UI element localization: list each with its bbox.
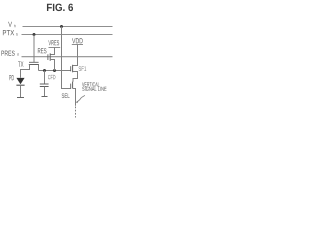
transistor TX channel bar bbox=[29, 64, 39, 66]
transistor RES gate bar bbox=[47, 54, 49, 60]
transistor RES channel bar bbox=[49, 53, 51, 61]
wire TX drain to FD node bbox=[38, 65, 40, 71]
wire RES source to FD bbox=[50, 60, 55, 71]
node dot on PTX_n bus (TX gate tap) bbox=[33, 33, 36, 36]
wire V_n bus to SEL gate bbox=[62, 27, 71, 89]
label PRES_n bbox=[1, 51, 19, 56]
wire CFD to ground bbox=[44, 87, 46, 97]
label VERTICAL bbox=[82, 82, 99, 86]
label SF1 bbox=[79, 66, 87, 71]
photodiode PD anode triangle bbox=[16, 78, 24, 84]
wire FD to CFD top plate bbox=[44, 71, 46, 85]
wire TX source to PD bbox=[21, 65, 30, 78]
photodiode PD cathode bar bbox=[16, 84, 24, 86]
ground tick under PD bbox=[17, 97, 24, 99]
label SEL bbox=[62, 93, 70, 98]
net PRES_n bus bbox=[22, 56, 113, 58]
wire PD to ground bbox=[20, 85, 22, 97]
label TX bbox=[18, 61, 23, 66]
transistor SF channel bar bbox=[72, 65, 74, 73]
label PD bbox=[9, 75, 14, 80]
leader from label to vertical signal line bbox=[77, 95, 85, 102]
label PTX_n bbox=[3, 30, 18, 36]
wire SEL source to vertical signal line bbox=[73, 89, 76, 106]
node dot on V_n bus (SEL gate tap) bbox=[60, 25, 63, 28]
leader arrowhead bbox=[76, 101, 78, 103]
node dot FD to CFD bbox=[43, 69, 46, 72]
wire vertical signal line dashed continuation bbox=[75, 107, 77, 118]
label VDD bbox=[72, 38, 83, 43]
wire SF source jog to SEL drain bbox=[73, 72, 78, 82]
transistor SEL channel bar bbox=[72, 82, 74, 89]
label title FIG. 6 bbox=[47, 4, 73, 12]
terminal VRES underline bbox=[49, 47, 61, 49]
label SIGNAL LINE bbox=[82, 87, 106, 91]
transistor TX gate bar bbox=[29, 61, 39, 63]
capacitor CFD bottom plate bbox=[40, 86, 49, 88]
transistor SF gate bar bbox=[70, 66, 72, 71]
terminal VDD underline bbox=[72, 44, 83, 46]
label V_n bbox=[8, 22, 15, 27]
transistor SEL gate bar bbox=[70, 84, 72, 89]
label CFD bbox=[48, 75, 55, 79]
wire FD node line bbox=[39, 70, 71, 72]
net V_n bus bbox=[23, 26, 113, 28]
label VRES bbox=[48, 40, 59, 45]
wire VDD to SF drain bbox=[73, 45, 78, 66]
capacitor CFD top plate bbox=[40, 83, 49, 85]
node dot FD to RES source bbox=[53, 69, 56, 72]
label RES bbox=[38, 48, 47, 53]
wire TX gate from PTX_n bus bbox=[33, 35, 35, 63]
wire VRES to RES drain bbox=[50, 48, 55, 55]
ground tick under CFD bbox=[42, 96, 48, 98]
net PTX_n bus bbox=[22, 34, 113, 36]
